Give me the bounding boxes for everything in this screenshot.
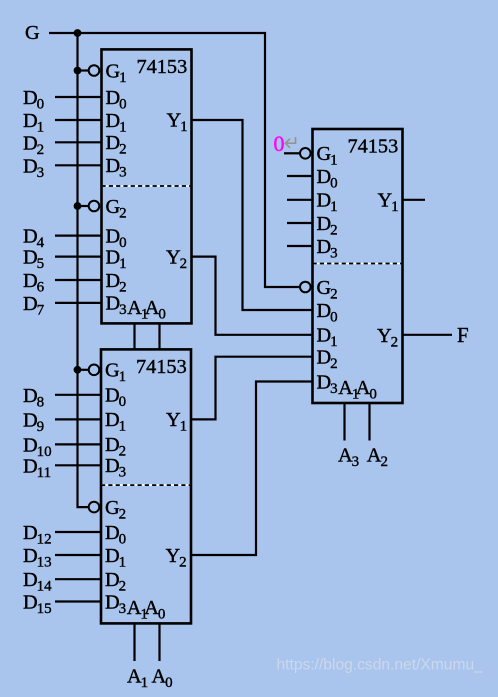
svg-text:G: G (25, 22, 40, 44)
svg-text:https://blog.csdn.net/Xmumu_: https://blog.csdn.net/Xmumu_ (277, 657, 484, 674)
svg-text:F: F (457, 323, 469, 347)
svg-text:0: 0 (274, 131, 285, 156)
svg-text:74153: 74153 (137, 56, 188, 78)
svg-text:74153: 74153 (136, 356, 187, 378)
svg-text:74153: 74153 (348, 135, 399, 157)
